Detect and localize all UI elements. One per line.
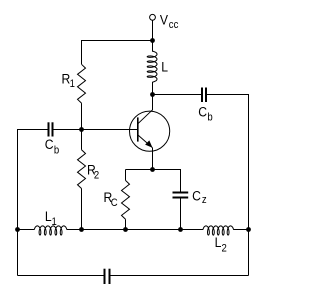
wire Vcc to node A [152, 20, 154, 40]
svg-text:L: L [161, 58, 168, 74]
wire left rail to L1 [18, 229, 35, 231]
node D junction [246, 227, 251, 232]
wire bottom rail left [18, 275, 105, 277]
wire collector stem [152, 95, 154, 111]
svg-text:1: 1 [70, 78, 76, 90]
svg-text:cc: cc [169, 20, 179, 32]
node Cz-bottom junction [178, 227, 183, 232]
resistor R2 [78, 150, 86, 189]
wire L1 to L2 [67, 229, 204, 231]
node C junction (collector node) [150, 92, 155, 97]
node A junction [150, 38, 155, 43]
wire R1 bottom stem [81, 103, 83, 129]
svg-text:C: C [198, 104, 207, 120]
svg-text:z: z [202, 194, 207, 206]
wire Cz top stem [180, 169, 182, 193]
wire Cb left to left rail [18, 129, 49, 131]
wire node B to Cb left [53, 129, 82, 131]
node RC-bottom junction [123, 227, 128, 232]
inductor L [147, 51, 157, 82]
node R2-bottom junction [79, 227, 84, 232]
wire top horizontal [82, 40, 153, 42]
inductor L1 [34, 226, 67, 235]
wire bottom rail right [110, 275, 249, 277]
svg-text:b: b [54, 145, 60, 157]
wire base [82, 129, 138, 131]
Vcc terminal [150, 14, 156, 20]
svg-text:C: C [192, 188, 201, 204]
capacitor Cb (top right) [201, 88, 203, 103]
wire left rail [17, 129, 19, 276]
svg-text:2: 2 [94, 170, 100, 182]
wire RC bottom stem [125, 219, 127, 229]
svg-text:C: C [111, 197, 118, 209]
node F junction (emitter node) [150, 167, 155, 172]
wire emitter stem [152, 148, 154, 170]
svg-text:b: b [207, 112, 213, 124]
wire R1 top stem [81, 40, 83, 64]
wire collector node to Cb [153, 94, 203, 96]
svg-text:2: 2 [222, 243, 228, 255]
wire RC top stem [125, 170, 127, 181]
wire emitter node to RC [126, 169, 153, 171]
wire right rail [248, 94, 250, 276]
wire R2 bottom stem [81, 189, 83, 230]
resistor RC [122, 180, 130, 219]
inductor L2 [203, 226, 234, 235]
resistor R1 [78, 64, 86, 103]
wire R2 top stem [81, 130, 83, 150]
capacitor C (bottom, unlabeled) [104, 269, 106, 284]
transistor Q1 [130, 110, 170, 152]
wire L bottom stem [152, 82, 154, 95]
svg-text:V: V [160, 12, 168, 28]
wire L top stem [152, 41, 154, 52]
wire emitter node to Cz corner [153, 169, 181, 171]
svg-text:C: C [45, 136, 54, 152]
capacitor Cb (left) [48, 122, 50, 136]
node B junction (base node) [79, 127, 84, 132]
svg-text:1: 1 [52, 217, 58, 229]
svg-text:L: L [215, 234, 222, 250]
node E junction [15, 227, 20, 232]
wire Cb to right rail [206, 94, 249, 96]
capacitor Cz [173, 192, 189, 194]
wire Cz bottom stem [180, 198, 182, 230]
wire L2 to right rail [233, 229, 248, 231]
